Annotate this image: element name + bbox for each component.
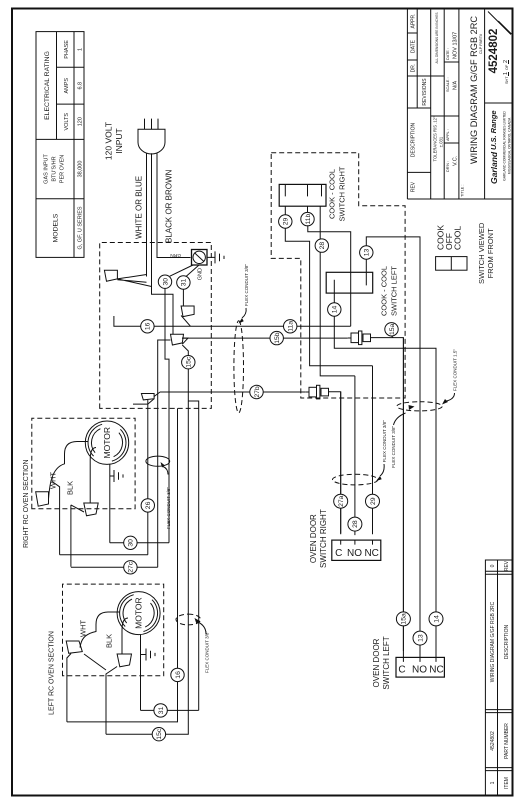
title block grid [407,9,513,200]
wire 28 [320,206,355,376]
switch S2 cook-cool left [326,266,398,316]
svg-text:FLEX CONDUIT 1.5": FLEX CONDUIT 1.5" [453,349,458,391]
svg-text:13: 13 [417,634,424,642]
wires from S3 circles to runs [341,366,373,517]
flex conduit oval left RC [176,614,210,673]
node 14 oven door [429,612,443,626]
svg-text:MOTOR: MOTOR [102,427,112,458]
svg-text:GAS INPUT: GAS INPUT [44,154,50,184]
wire 27c run [158,340,171,567]
svg-text:PART NUMBER: PART NUMBER [504,723,510,759]
earth ground symbol below screw [207,251,224,263]
svg-text:1: 1 [78,48,84,51]
svg-text:31: 31 [181,279,188,287]
svg-text:U.S. Range: U.S. Range [489,110,498,150]
svg-text:V.C.: V.C. [453,155,459,166]
svg-text:16: 16 [145,322,152,330]
svg-text:C: C [398,665,405,676]
svg-text:14: 14 [332,306,339,314]
svg-text:OF: OF [505,64,509,70]
svg-text:C: C [335,548,342,559]
svg-text:REV: REV [410,181,416,192]
ground screw GND [192,250,208,281]
svg-text:6.8: 6.8 [78,82,84,90]
node 14 [328,303,341,316]
svg-text:DATE :: DATE : [446,48,450,60]
svg-text:15a: 15a [389,323,396,335]
earth ground M2 [141,649,156,661]
switch S1 cook-cool right [279,166,346,221]
Garland U.S. Range logo [489,110,512,184]
svg-text:FLEX CONDUIT 3/8": FLEX CONDUIT 3/8" [166,487,171,529]
svg-text:MODELS: MODELS [53,213,60,242]
svg-text:SWITCH VIEWED: SWITCH VIEWED [477,222,486,284]
wire 16/11a vertical run [114,316,351,326]
svg-text:OVEN DOOR: OVEN DOOR [372,638,381,687]
svg-text:FLEX CONDUIT 3/8": FLEX CONDUIT 3/8" [205,631,210,673]
wire 15c inside junction box [182,345,188,408]
svg-text:DATE: DATE [410,39,416,53]
svg-text:NC: NC [364,548,378,559]
svg-text:SWITCH RIGHT: SWITCH RIGHT [319,509,328,568]
wire stubs at S3 terminals [341,508,373,535]
svg-text:ALL DIMENSIONS ARE IN INCHES: ALL DIMENSIONS ARE IN INCHES [435,13,439,64]
svg-text:14: 14 [433,615,440,623]
svg-text:26: 26 [145,501,152,509]
svg-text:FLEX CONDUIT 3/8": FLEX CONDUIT 3/8" [244,264,249,306]
wire motor M2 to run 31 [140,635,142,711]
flex conduit oval right RC (solid) [146,456,171,529]
svg-text:DESCRIPTION: DESCRIPTION [410,123,416,158]
svg-text:WHT: WHT [79,620,88,637]
wire WHT to motor M1 [49,442,89,500]
svg-text:GARLAND COMMERCIAL RANGES LIMI: GARLAND COMMERCIAL RANGES LIMITED [503,111,507,181]
svg-text:NO: NO [412,665,427,676]
svg-text:11b: 11b [305,213,312,224]
svg-text:DESCRIPTION: DESCRIPTION [504,625,510,660]
node 15a [385,323,398,338]
svg-text:PER OVEN: PER OVEN [60,155,66,183]
svg-text:N/A: N/A [453,81,459,91]
node 15c [182,356,195,369]
wire white-or-blue from plug [135,153,147,276]
title block drawing title [461,16,484,197]
svg-text:120 VOLT: 120 VOLT [104,122,114,160]
svg-text:29: 29 [283,218,290,226]
wire 31 corner [141,709,199,711]
wire 15c run [106,408,188,734]
svg-text:VOLTS: VOLTS [64,113,70,131]
svg-text:FLEX CONDUIT 3/8": FLEX CONDUIT 3/8" [391,425,396,467]
svg-text:OVEN DOOR: OVEN DOOR [309,514,318,563]
wire 29 to earth [285,206,372,366]
switch S3 oven door right [309,509,381,568]
svg-text:NOV 13/07: NOV 13/07 [453,32,459,59]
svg-text:1: 1 [490,781,496,784]
svg-text:FLEX CONDUIT 3/8": FLEX CONDUIT 3/8" [382,420,387,462]
node 27b [250,385,263,398]
power plug P1 120 volt input [104,119,166,160]
electrical rating table [36,32,84,258]
wires from screw to circles 30 31 [170,265,199,277]
wire nut WHT left [66,620,87,654]
wire motor M1 to run 30 [109,464,111,542]
wire BLK to motor M2 [122,618,128,654]
wire black-or-brown from plug [152,153,174,334]
svg-text:DR.: DR. [410,64,416,73]
svg-text:Garland: Garland [489,151,499,184]
wire 30 to left [165,288,169,542]
wire riser to WHT nut right [52,482,60,555]
wire 11b [308,206,351,326]
svg-text:REV: REV [504,560,510,571]
connector J1 inline [348,331,374,345]
svg-text:11a: 11a [288,321,295,332]
wire 16 run [67,408,178,722]
svg-text:30: 30 [128,539,135,547]
svg-text:29: 29 [370,497,377,505]
wire 27b [160,392,341,534]
svg-text:CLP PART#: CLP PART# [479,33,483,54]
node 16 left [171,668,184,681]
wire riser to WHT nut left [67,654,71,722]
node 30 right RC [124,536,137,549]
right RC oven section enclosure [23,418,135,548]
connector J2 inline [306,385,330,399]
node 29 oven door [366,494,380,508]
svg-text:27a: 27a [338,495,345,507]
wire from nut W3 to conduit [182,338,188,344]
svg-text:4524802: 4524802 [488,29,500,74]
switch S4 oven door left [372,636,444,689]
junction box (dashed enclosure) [100,243,212,409]
wire BLK to motor M1 [90,448,96,504]
svg-text:28: 28 [352,520,359,528]
svg-text:SCALE :: SCALE : [446,77,450,92]
svg-text:LEFT RC OVEN SECTION: LEFT RC OVEN SECTION [49,631,56,715]
svg-text:SHT: SHT [505,76,509,84]
svg-text:APPR.: APPR. [410,13,416,28]
svg-text:COOL: COOL [453,226,463,250]
node 31 left [154,704,167,717]
svg-text:INPUT: INPUT [114,128,124,154]
title block drawn-by / scale / date [446,32,459,172]
svg-text:PHASE: PHASE [64,40,70,59]
svg-text:120: 120 [78,117,84,126]
node 28 [315,239,328,252]
wire 31 left run [188,401,198,710]
node 15c left [152,728,165,741]
node 29 [279,215,292,228]
svg-text:30: 30 [162,278,169,286]
node 27c [124,561,137,574]
svg-text:15c: 15c [186,356,193,368]
wire riser to BLK nut right [71,505,84,567]
svg-text:SWITCH LEFT: SWITCH LEFT [389,266,398,316]
earth ground M1 [110,470,123,482]
wire green ground from plug [157,153,191,258]
node 13 [360,246,373,259]
wire from nut W2 [181,316,190,327]
wire nut W1 (white) [104,270,117,281]
node 11b [301,212,314,225]
svg-text:REVISIONS: REVISIONS [422,78,428,106]
svg-text:13: 13 [364,249,371,257]
title block tolerances [433,13,444,162]
svg-text:APPL :: APPL : [446,129,450,141]
title block revisions header [410,13,428,192]
svg-text:RIGHT RC OVEN SECTION: RIGHT RC OVEN SECTION [23,459,30,548]
svg-text:SWITCH LEFT: SWITCH LEFT [382,636,391,689]
svg-text:31: 31 [158,706,165,714]
svg-text:BLK: BLK [105,634,114,648]
wire stubs at S4 terminals [402,338,404,658]
node 13 oven door [413,631,427,645]
wire nut W3 [171,334,184,345]
flex conduit oval (junction box outlet) [234,264,249,413]
svg-text:SWITCH RIGHT: SWITCH RIGHT [337,166,346,221]
cook-cool dashed enclosure [271,153,405,398]
svg-text:COOK - COOL: COOK - COOL [328,169,337,219]
wire riser to BLK nut left [84,654,117,734]
svg-text:WIRING DIAGRAM G/GF RGB 2RC: WIRING DIAGRAM G/GF RGB 2RC [469,16,479,164]
node 15a oven door [396,612,410,626]
node 15b [270,331,283,344]
node 31 [177,276,190,289]
wires from nut W4 [133,392,160,404]
svg-text:AMPS: AMPS [64,78,70,94]
svg-text:ITEM: ITEM [504,777,510,789]
node 27a [334,494,348,508]
drawing number 4524802 [488,12,512,85]
svg-text:TOLERANCES R/S .12": TOLERANCES R/S .12" [433,116,438,161]
svg-text:NO: NO [347,548,362,559]
svg-text:16: 16 [175,671,182,679]
svg-text:ELECTRICAL RATING: ELECTRICAL RATING [44,51,51,120]
wire WHT to motor M2 [80,612,120,648]
svg-text:BLACK OR BROWN: BLACK OR BROWN [165,169,174,243]
wire nut W2 [181,306,194,317]
svg-text:DR'N :: DR'N : [446,161,450,172]
svg-text:BTU'S/HR: BTU'S/HR [52,156,58,181]
wire nut WHT right [36,472,58,507]
wire nut BLK right [66,481,99,516]
svg-text:27b: 27b [254,386,261,398]
legend cook-off-cool [436,222,496,284]
node 11a [284,320,297,333]
svg-text:FROM FRONT: FROM FRONT [486,228,495,278]
svg-text:4524802: 4524802 [490,731,496,751]
svg-text:0: 0 [490,564,496,567]
wire 26 corner [60,554,148,556]
svg-text:±.031: ±.031 [439,136,444,147]
motor M2 left [117,592,160,635]
svg-text:38,000: 38,000 [78,161,84,178]
wire 14 [334,280,436,651]
svg-text:MOTOR: MOTOR [134,597,144,628]
wire nut BLK left [105,634,132,667]
svg-text:MISSISSAUGA, ONTARIO, CANADA: MISSISSAUGA, ONTARIO, CANADA [508,117,512,174]
svg-text:WIRING DIAGRAM G/GF RGB 2RC: WIRING DIAGRAM G/GF RGB 2RC [490,601,496,682]
wire 13 [366,237,420,651]
svg-text:COOK - COOL: COOK - COOL [380,266,389,316]
svg-text:GRN: GRN [170,252,181,258]
wire 15b/15a with connector [182,338,403,651]
wire nut W4 [141,394,154,400]
flex conduit oval at S3 [333,420,388,485]
node 30 [158,275,171,288]
svg-text:15a: 15a [401,613,408,625]
wire fan from nut W1 to white wire [117,275,151,287]
flex conduit oval at S4 [391,402,442,468]
svg-text:28: 28 [319,242,326,250]
svg-text:BLK: BLK [66,481,75,495]
wire 31 to nut W2 [182,289,184,306]
left RC oven section enclosure [49,584,164,715]
svg-text:G, GF, U SERIES: G, GF, U SERIES [78,206,84,249]
node 28 oven door [348,517,362,531]
svg-text:15b: 15b [274,332,281,344]
svg-text:TITLE :: TITLE : [461,185,465,197]
svg-text:NC: NC [429,665,443,676]
motor M1 right [85,421,128,464]
svg-text:27c: 27c [128,561,135,573]
svg-text:15c: 15c [156,728,163,740]
node 26 [141,499,154,512]
wire 27c corner [71,566,158,568]
parts list strip [485,560,513,796]
flex conduit 1.5 inch label [442,349,458,405]
wire 26 run [147,404,149,555]
node 16 [141,320,154,333]
wire 30 corner [110,542,169,544]
svg-text:WHITE OR BLUE: WHITE OR BLUE [135,176,144,239]
svg-text:GND: GND [198,268,204,280]
